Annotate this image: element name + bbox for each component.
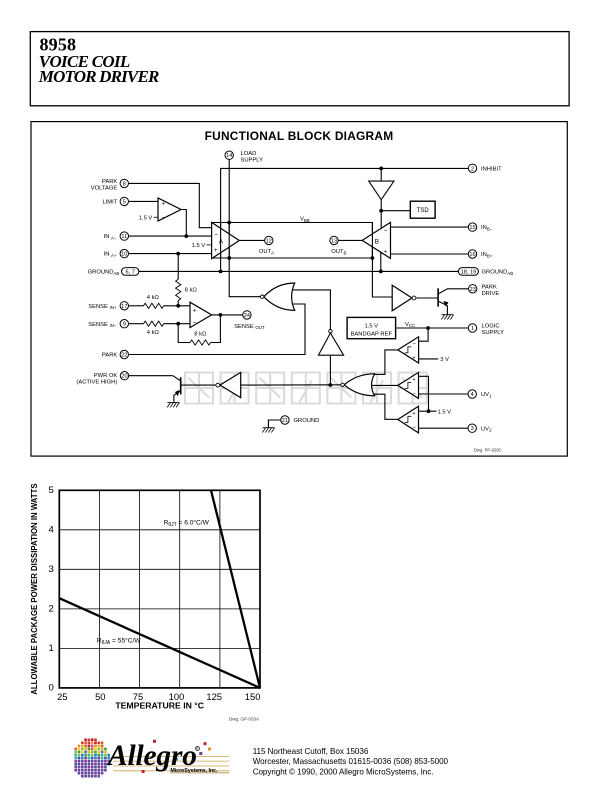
wire comp1 output to NOR2 <box>373 350 398 375</box>
wire UV2 output to NOR2 <box>373 394 398 419</box>
svg-text:0: 0 <box>48 683 53 694</box>
wire inverter to transistor base <box>181 384 216 386</box>
title VOICE COIL <box>39 52 131 71</box>
svg-text:+: + <box>412 355 415 361</box>
wire through amp B (V_BB line) <box>371 223 373 258</box>
junction inhibit/inverter <box>379 167 383 171</box>
gate NOR2 <box>341 374 375 396</box>
svg-text:INB−: INB− <box>481 225 493 231</box>
svg-text:−: − <box>162 215 166 222</box>
x axis labels <box>57 691 260 702</box>
label IN B+ <box>481 252 493 258</box>
wire OUT_B <box>337 239 362 241</box>
svg-text:INB+: INB+ <box>481 252 493 258</box>
label R6JA <box>97 637 141 647</box>
y axis title <box>30 483 39 694</box>
label LOAD SUPPLY <box>241 151 264 164</box>
svg-text:VBB: VBB <box>300 217 310 223</box>
wire IN B+ <box>391 253 470 255</box>
inverter (pwr ok, points left) <box>216 372 241 397</box>
svg-text:OUTA: OUTA <box>259 249 274 255</box>
x axis title <box>115 701 204 711</box>
svg-text:+: + <box>214 248 218 254</box>
svg-text:15: 15 <box>469 225 475 231</box>
svg-text:PARK: PARK <box>102 179 117 185</box>
svg-text:1.5 V: 1.5 V <box>365 323 379 329</box>
svg-text:20: 20 <box>121 374 127 380</box>
op-amp sense <box>190 302 212 327</box>
wire inhibit to inverter <box>380 168 382 181</box>
svg-text:5: 5 <box>48 485 53 496</box>
comparator UV VCC <box>398 337 419 363</box>
svg-text:−: − <box>214 232 218 239</box>
label LIMIT <box>102 200 117 206</box>
svg-text:TSD: TSD <box>417 208 430 214</box>
svg-text:3: 3 <box>48 564 53 575</box>
op-amp B <box>362 222 390 258</box>
inverter (inhibit, points down) <box>369 181 394 200</box>
svg-text:1.5 V: 1.5 V <box>192 243 206 249</box>
transistor Q1 (PNP pwr ok) <box>173 376 181 403</box>
label OUT_A <box>259 249 274 255</box>
wire pwr ok pin <box>128 375 173 377</box>
pin 17 SENSE IN+ <box>120 302 128 310</box>
junction sense+ <box>176 304 180 308</box>
label PARK <box>102 353 117 359</box>
logo gold lines <box>113 756 229 773</box>
wire V_BB rail <box>212 223 393 298</box>
svg-text:4: 4 <box>471 392 474 398</box>
svg-text:18, 19: 18, 19 <box>461 269 477 275</box>
junction comparator/IN A- <box>184 234 188 238</box>
curve R6.0 <box>211 490 260 688</box>
label 3V <box>440 357 449 363</box>
part number 8958 <box>40 34 77 54</box>
wire NOR1 top input to inverter <box>293 290 331 330</box>
wire limit to comparator <box>128 200 158 202</box>
label amp A <box>219 239 224 246</box>
svg-text:24: 24 <box>244 313 250 319</box>
address line 3 <box>253 768 434 777</box>
svg-text:SENSE IN+: SENSE IN+ <box>88 304 117 310</box>
label INHIBIT <box>481 166 502 172</box>
svg-text:21: 21 <box>282 418 288 424</box>
svg-text:10: 10 <box>121 252 127 258</box>
svg-text:+: + <box>162 202 166 208</box>
svg-text:+: + <box>412 411 415 417</box>
svg-text:RθJT = 6.0°C/W: RθJT = 6.0°C/W <box>164 519 210 529</box>
label PWR OK <box>76 373 117 386</box>
wire IN A+ to 8k resistor <box>177 254 179 280</box>
label SENSE OUT <box>234 324 265 330</box>
graph dwg number <box>229 717 259 722</box>
wire IN B- <box>391 226 470 228</box>
svg-text:(ACTIVE HIGH): (ACTIVE HIGH) <box>76 379 117 385</box>
wire UV2 + to 1.5V <box>419 410 437 412</box>
ground pwr ok <box>167 403 179 408</box>
pins 6,7 GROUND_AB <box>122 268 139 276</box>
svg-text:IN A−: IN A− <box>104 234 117 240</box>
op-amp A <box>192 222 240 258</box>
address line 2 <box>253 757 449 766</box>
svg-text:PWR OK: PWR OK <box>94 373 118 379</box>
label GROUND_AB right <box>482 270 514 276</box>
svg-text:SENSE OUT: SENSE OUT <box>234 324 265 330</box>
svg-text:2: 2 <box>48 604 53 615</box>
junction V_BB rail <box>227 221 231 225</box>
wire SENSE IN- <box>128 321 190 326</box>
pin 4 UV1 <box>468 390 476 398</box>
functional block diagram frame <box>31 122 567 457</box>
label IN A- <box>104 234 117 240</box>
comparator UV1 <box>398 372 419 398</box>
svg-text:−: − <box>384 227 388 234</box>
svg-text:SENSE IN−: SENSE IN− <box>88 322 117 328</box>
svg-text:5: 5 <box>123 199 126 205</box>
junction feedback <box>176 322 180 326</box>
svg-text:2: 2 <box>471 166 474 172</box>
pin 11 IN A- <box>120 232 128 240</box>
gate NOR1 <box>261 283 295 310</box>
junction pwr-ok line <box>329 383 333 387</box>
svg-text:BANDGAP REF: BANDGAP REF <box>351 331 393 337</box>
svg-text:Copyright © 1990, 2000 Allegro: Copyright © 1990, 2000 Allegro MicroSyst… <box>253 768 434 777</box>
wire sense out <box>212 314 244 316</box>
wire UV1 output <box>370 384 398 386</box>
wire ground pin <box>268 420 281 428</box>
wire SENSE IN+ <box>128 303 190 308</box>
svg-text:3: 3 <box>471 426 474 432</box>
address line 1 <box>253 747 369 756</box>
svg-text:1.5 V: 1.5 V <box>139 215 153 221</box>
pin 1 LOGIC SUPPLY <box>468 324 476 332</box>
svg-text:1.5 V: 1.5 V <box>438 409 452 415</box>
pin 5 LIMIT <box>120 197 128 205</box>
wire OUT_A <box>239 239 265 241</box>
wire NOR2 output to inverter <box>241 384 341 386</box>
svg-text:150: 150 <box>245 691 261 702</box>
svg-text:FUNCTIONAL BLOCK DIAGRAM: FUNCTIONAL BLOCK DIAGRAM <box>205 129 394 143</box>
svg-text:17: 17 <box>121 304 127 310</box>
wire VCC <box>396 327 470 329</box>
wire GROUND_AB rail <box>139 270 459 272</box>
label IN A+ <box>104 252 117 258</box>
svg-text:Dwg. GP-033A: Dwg. GP-033A <box>229 717 259 722</box>
svg-text:−: − <box>193 319 197 326</box>
svg-text:Worcester, Massachusetts 01615: Worcester, Massachusetts 01615-0036 (508… <box>253 757 449 766</box>
svg-text:PARK: PARK <box>102 353 117 359</box>
pin 12 OUT_A <box>265 236 273 244</box>
svg-text:8 kΩ: 8 kΩ <box>185 288 198 294</box>
svg-text:GROUND: GROUND <box>294 418 320 424</box>
svg-text:6, 7: 6, 7 <box>126 269 135 275</box>
svg-text:23: 23 <box>470 287 476 293</box>
wire amp B ground <box>380 252 382 271</box>
wire load supply vertical down to NOR output <box>229 159 260 297</box>
wire park drive base <box>416 297 438 299</box>
inverter (park drive) <box>392 285 416 311</box>
wire 8k to sense+ <box>177 301 179 306</box>
pin 9 SENSE IN- <box>120 320 128 328</box>
pin 23 PARK DRIVE <box>469 285 477 293</box>
svg-text:UV1: UV1 <box>481 392 492 398</box>
svg-text:LOGIC: LOGIC <box>482 323 500 329</box>
wire 3V input <box>419 358 439 360</box>
svg-text:8: 8 <box>123 181 126 187</box>
junction 1.5V <box>427 409 431 413</box>
bandgap reference box <box>347 317 396 338</box>
svg-text:GROUNDAB: GROUNDAB <box>88 270 120 276</box>
wire UV2 pin <box>419 427 469 429</box>
pin 16 IN B+ <box>468 250 476 258</box>
svg-text:UV2: UV2 <box>481 426 492 432</box>
wire inverter to amp B <box>380 200 382 228</box>
svg-text:LIMIT: LIMIT <box>102 200 117 206</box>
label SENSE IN+ <box>88 304 117 310</box>
wire VCC to comparator <box>419 328 429 341</box>
resistor 8k vertical <box>176 279 198 300</box>
wire UV1 pin <box>419 393 469 395</box>
transistor Q2 (NPN park drive) <box>438 288 470 314</box>
pin 24 SENSE OUT <box>243 311 251 319</box>
wire through amp A (load supply line) <box>228 224 230 258</box>
svg-text:TEMPERATURE IN °C: TEMPERATURE IN °C <box>115 701 204 711</box>
svg-text:1: 1 <box>48 643 53 654</box>
svg-text:+: + <box>384 250 388 256</box>
pin 20 PWR OK <box>120 372 128 380</box>
label GROUND <box>294 418 320 424</box>
svg-text:SUPPLY: SUPPLY <box>482 330 505 336</box>
feedback resistor 8k <box>178 315 220 345</box>
svg-text:INHIBIT: INHIBIT <box>481 166 502 172</box>
svg-text:A: A <box>219 239 224 246</box>
logo colored squares <box>142 740 211 773</box>
pin 14 LOAD SUPPLY <box>225 151 233 159</box>
svg-text:25: 25 <box>57 691 67 702</box>
svg-text:50: 50 <box>95 691 105 702</box>
junction lower rail <box>227 256 231 260</box>
pin 13 OUT_B <box>330 236 338 244</box>
wire PARK to NOR input <box>128 304 305 355</box>
svg-text:DRIVE: DRIVE <box>482 291 500 297</box>
svg-text:125: 125 <box>206 691 222 702</box>
junction amp B ground <box>379 270 383 274</box>
svg-text:+: + <box>412 377 415 383</box>
label IN B- <box>481 225 493 231</box>
junction rails <box>371 256 375 260</box>
TSD box <box>410 201 435 218</box>
resistor 4k label top <box>147 295 160 301</box>
junction IN A+/8k <box>176 252 180 256</box>
graph frame <box>59 490 260 688</box>
label SENSE IN- <box>88 322 117 328</box>
wire through amp A (inhibit line) <box>220 224 222 258</box>
svg-text:9: 9 <box>123 322 126 328</box>
svg-text:MicroSystems, Inc.: MicroSystems, Inc. <box>170 768 218 774</box>
svg-text:22: 22 <box>121 353 127 359</box>
svg-text:8 kΩ: 8 kΩ <box>194 331 207 337</box>
label PARK DRIVE <box>482 284 500 297</box>
svg-text:16: 16 <box>469 252 475 258</box>
svg-text:MOTOR DRIVER: MOTOR DRIVER <box>38 67 160 86</box>
label GROUND_AB left <box>88 270 120 276</box>
svg-text:OUTB: OUTB <box>331 249 346 255</box>
junction VCC <box>426 326 430 330</box>
pin 15 IN B- <box>468 223 476 231</box>
junction ground rail left <box>219 270 223 274</box>
junction TSD <box>379 209 383 213</box>
svg-text:B: B <box>375 238 379 245</box>
svg-text:4: 4 <box>48 525 54 536</box>
label VCC <box>405 322 415 328</box>
pin 22 PARK <box>120 350 128 358</box>
ground park drive <box>441 315 453 320</box>
wire INHIBIT rail <box>221 168 470 271</box>
svg-text:PARK: PARK <box>482 284 497 290</box>
Allegro logo mosaic globe <box>74 739 110 778</box>
label OUT_B <box>331 249 346 255</box>
svg-text:R: R <box>196 747 199 751</box>
svg-text:3 V: 3 V <box>440 357 449 363</box>
dwg number <box>474 448 502 453</box>
header box <box>30 32 569 106</box>
label UV2 <box>481 426 492 432</box>
wire comparator output to IN A- <box>181 210 186 237</box>
Allegro wordmark <box>106 740 200 772</box>
wire inverter input <box>329 355 331 385</box>
label 1.5V <box>438 409 452 415</box>
svg-text:1: 1 <box>471 326 474 332</box>
svg-text:IN A+: IN A+ <box>104 252 117 258</box>
pin 10 IN A+ <box>120 249 128 257</box>
wire park voltage to amp A <box>128 183 212 227</box>
resistor 4k label bottom <box>147 330 160 336</box>
label V_BB <box>300 217 310 223</box>
label LOGIC SUPPLY <box>482 323 505 336</box>
svg-text:LOAD: LOAD <box>241 151 257 157</box>
curve R55 <box>59 598 260 688</box>
inverter (bubble up) <box>318 330 343 356</box>
svg-text:VOLTAGE: VOLTAGE <box>91 186 118 192</box>
svg-text:14: 14 <box>226 153 232 159</box>
svg-text:Dwg. PP-020C: Dwg. PP-020C <box>474 448 502 453</box>
MicroSystems Inc <box>170 768 218 774</box>
svg-text:4 kΩ: 4 kΩ <box>147 330 160 336</box>
svg-text:4 kΩ: 4 kΩ <box>147 295 160 301</box>
label R6JT <box>164 519 210 529</box>
wire IN A+ <box>128 253 212 255</box>
junction sense out <box>219 313 223 317</box>
svg-text:11: 11 <box>121 234 127 240</box>
pin 3 UV2 <box>468 424 476 432</box>
svg-text:SUPPLY: SUPPLY <box>241 157 264 163</box>
ground symbol 21 <box>262 428 274 433</box>
wire lower rail <box>212 257 373 259</box>
svg-text:115 Northeast Cutoff, Box 1503: 115 Northeast Cutoff, Box 15036 <box>253 747 369 756</box>
svg-text:VCC: VCC <box>405 322 415 328</box>
wire UV1 + to 1.5V <box>419 376 429 411</box>
pin 8 PARK VOLTAGE <box>120 179 128 187</box>
svg-text:RθJA = 55°C/W: RθJA = 55°C/W <box>97 637 141 647</box>
wire IN A- <box>128 235 212 237</box>
title MOTOR DRIVER <box>38 67 160 86</box>
svg-text:13: 13 <box>331 238 337 244</box>
label PARK VOLTAGE <box>91 179 118 192</box>
y axis labels <box>48 485 54 694</box>
pins 18,19 GROUND_AB <box>458 268 478 276</box>
svg-text:ALLOWABLE PACKAGE POWER DISSIP: ALLOWABLE PACKAGE POWER DISSIPATION IN W… <box>30 483 39 694</box>
diagram title <box>205 129 394 143</box>
graph gridlines <box>59 490 260 688</box>
watermark <box>185 373 427 404</box>
comparator UV2 <box>398 406 419 433</box>
svg-text:GROUNDAB: GROUNDAB <box>482 270 514 276</box>
wire TSD <box>381 210 410 212</box>
label UV1 <box>481 392 492 398</box>
pin 21 GROUND <box>281 416 289 424</box>
comparator U1 (limit) <box>139 198 181 222</box>
label amp B <box>375 238 379 245</box>
svg-text:+: + <box>193 308 197 314</box>
pin 2 INHIBIT <box>468 164 476 172</box>
svg-text:12: 12 <box>266 238 272 244</box>
